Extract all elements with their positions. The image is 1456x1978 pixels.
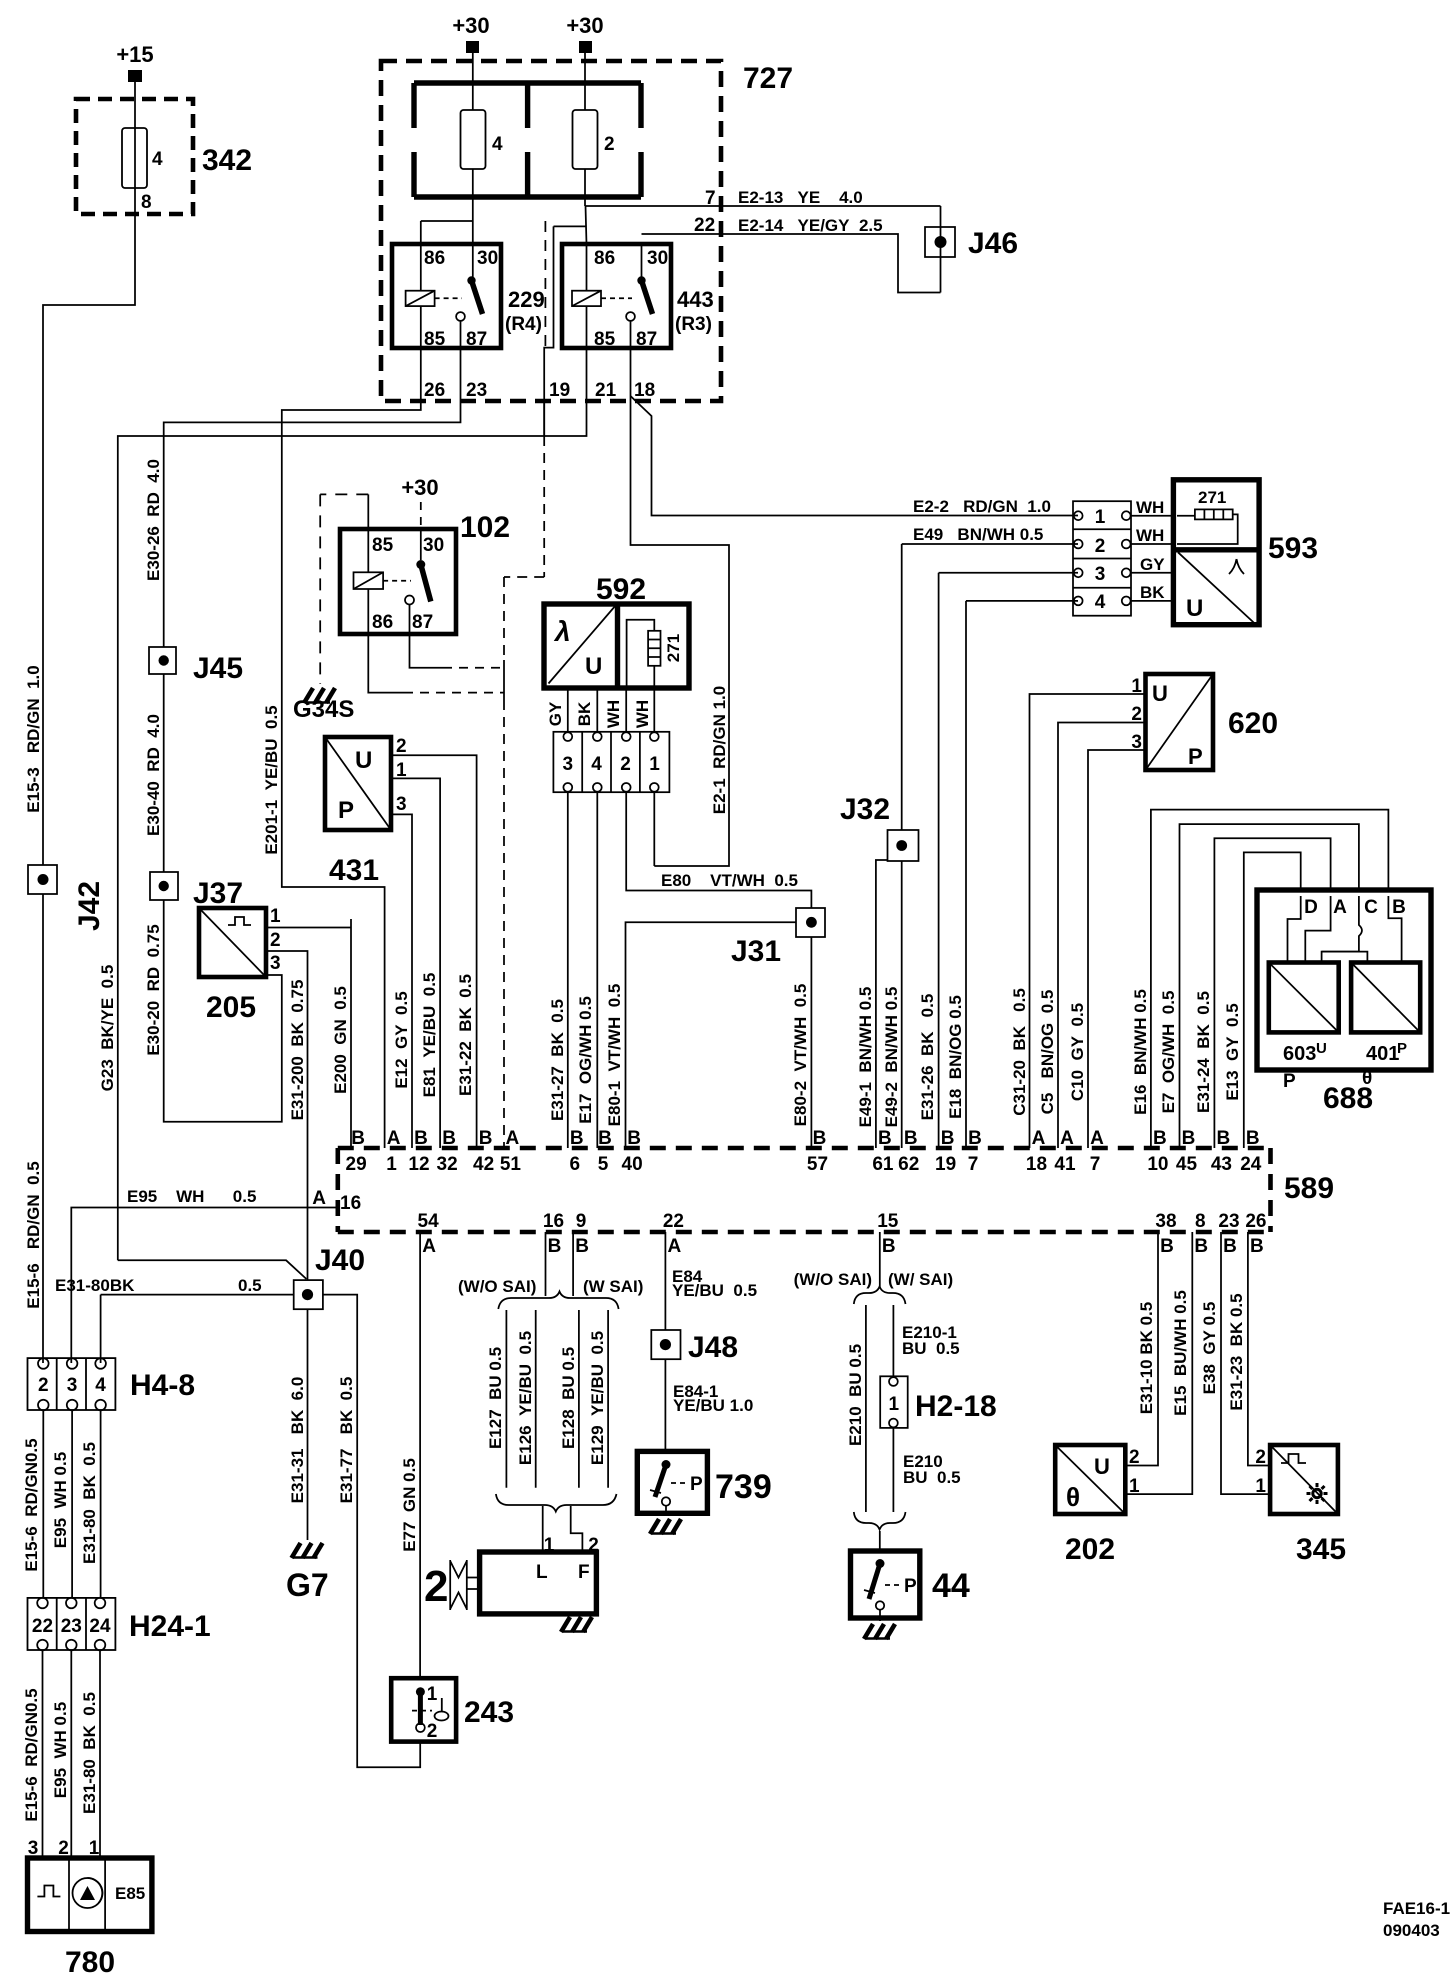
- svg-text:J40: J40: [315, 1244, 365, 1277]
- svg-text:J31: J31: [731, 935, 781, 968]
- svg-text:E30-40 RD 4.0: E30-40 RD 4.0: [144, 714, 163, 836]
- svg-text:P: P: [338, 797, 354, 824]
- svg-text:E31-80 BK 0.5: E31-80 BK 0.5: [80, 1442, 99, 1564]
- svg-text:7: 7: [1090, 1154, 1101, 1175]
- svg-text:E128 BU 0.5: E128 BU 0.5: [559, 1347, 578, 1449]
- svg-text:B: B: [813, 1128, 827, 1149]
- svg-text:E201-1 YE/BU 0.5: E201-1 YE/BU 0.5: [262, 705, 281, 854]
- svg-text:43: 43: [1211, 1154, 1232, 1175]
- svg-text:E49 BN/WH 0.5: E49 BN/WH 0.5: [913, 525, 1043, 544]
- svg-text:1: 1: [649, 754, 660, 775]
- svg-text:32: 32: [437, 1154, 458, 1175]
- svg-text:BU 0.5: BU 0.5: [903, 1468, 961, 1487]
- svg-text:8: 8: [141, 192, 152, 213]
- svg-text:589: 589: [1284, 1172, 1334, 1205]
- svg-text:B: B: [1250, 1236, 1264, 1257]
- svg-text:3: 3: [270, 953, 281, 974]
- svg-text:6: 6: [570, 1154, 581, 1175]
- svg-text:U: U: [1186, 595, 1203, 622]
- svg-text:E49-1 BN/WH 0.5: E49-1 BN/WH 0.5: [856, 987, 875, 1128]
- svg-text:(W/O SAI): (W/O SAI): [458, 1277, 536, 1296]
- svg-text:16: 16: [340, 1193, 361, 1214]
- svg-text:727: 727: [743, 62, 793, 95]
- svg-text:10: 10: [1147, 1154, 1168, 1175]
- svg-text:2: 2: [620, 754, 631, 775]
- svg-text:B: B: [351, 1128, 365, 1149]
- svg-text:44: 44: [932, 1567, 970, 1605]
- svg-text:86: 86: [424, 248, 445, 269]
- svg-text:B: B: [1160, 1236, 1174, 1257]
- svg-text:E31-80BK: E31-80BK: [55, 1276, 135, 1295]
- svg-text:85: 85: [372, 535, 394, 556]
- svg-text:J42: J42: [73, 881, 106, 931]
- svg-text:J48: J48: [688, 1331, 738, 1364]
- svg-text:342: 342: [202, 144, 252, 177]
- svg-text:WH: WH: [633, 700, 652, 728]
- svg-text:E95 WH 0.5: E95 WH 0.5: [51, 1702, 70, 1798]
- svg-text:2: 2: [424, 1562, 448, 1611]
- svg-text:B: B: [904, 1128, 918, 1149]
- svg-text:E31-26 BK 0.5: E31-26 BK 0.5: [918, 994, 937, 1121]
- svg-text:A: A: [312, 1188, 326, 1209]
- svg-text:E31-80 BK 0.5: E31-80 BK 0.5: [80, 1692, 99, 1814]
- svg-text:592: 592: [596, 573, 646, 606]
- svg-text:E2-1 RD/GN 1.0: E2-1 RD/GN 1.0: [710, 686, 729, 815]
- svg-text:4: 4: [591, 754, 602, 775]
- svg-text:4: 4: [152, 149, 163, 170]
- svg-text:WH: WH: [1136, 526, 1164, 545]
- svg-text:E95 WH 0.5: E95 WH 0.5: [127, 1187, 256, 1206]
- svg-text:P: P: [690, 1474, 703, 1495]
- svg-text:E85: E85: [115, 1884, 145, 1903]
- svg-text:16: 16: [543, 1211, 564, 1232]
- svg-text:3: 3: [396, 794, 407, 815]
- svg-text:780: 780: [65, 1946, 115, 1978]
- svg-text:0.5: 0.5: [238, 1276, 262, 1295]
- svg-text:4: 4: [492, 134, 503, 155]
- svg-text:E15 BU/WH 0.5: E15 BU/WH 0.5: [1171, 1290, 1190, 1416]
- svg-text:P: P: [1283, 1071, 1296, 1092]
- svg-text:E31-23 BK 0.5: E31-23 BK 0.5: [1227, 1293, 1246, 1410]
- svg-text:2: 2: [1129, 1447, 1140, 1468]
- svg-text:+30: +30: [452, 13, 489, 38]
- svg-text:431: 431: [329, 854, 379, 887]
- svg-text:U: U: [355, 747, 372, 774]
- svg-text:U: U: [1316, 1040, 1327, 1057]
- svg-text:24: 24: [89, 1616, 111, 1637]
- svg-text:B: B: [1223, 1236, 1237, 1257]
- svg-text:603: 603: [1283, 1043, 1316, 1065]
- svg-text:45: 45: [1176, 1154, 1198, 1175]
- svg-text:18: 18: [634, 380, 655, 401]
- svg-text:(W SAI): (W SAI): [583, 1277, 643, 1296]
- svg-text:1: 1: [270, 906, 281, 927]
- svg-text:G7: G7: [286, 1567, 329, 1603]
- svg-text:BK: BK: [575, 701, 594, 726]
- svg-text:1: 1: [1255, 1476, 1266, 1497]
- svg-text:19: 19: [549, 380, 570, 401]
- svg-text:E2-13 YE 4.0: E2-13 YE 4.0: [738, 188, 863, 207]
- svg-text:B: B: [627, 1128, 641, 1149]
- svg-text:(W/ SAI): (W/ SAI): [888, 1270, 953, 1289]
- svg-text:H4-8: H4-8: [130, 1369, 195, 1402]
- svg-text:B: B: [882, 1236, 896, 1257]
- svg-text:229: 229: [508, 287, 545, 312]
- svg-text:A: A: [422, 1236, 436, 1257]
- svg-text:40: 40: [622, 1154, 643, 1175]
- svg-text:E15-6 RD/GN0.5: E15-6 RD/GN0.5: [22, 1688, 41, 1821]
- svg-text:B: B: [1182, 1128, 1196, 1149]
- svg-text:243: 243: [464, 1696, 514, 1729]
- svg-text:202: 202: [1065, 1533, 1115, 1566]
- svg-text:(R3): (R3): [675, 314, 712, 335]
- svg-text:7: 7: [968, 1154, 979, 1175]
- svg-text:24: 24: [1240, 1154, 1262, 1175]
- svg-text:E200 GN 0.5: E200 GN 0.5: [331, 986, 350, 1094]
- svg-text:1: 1: [427, 1684, 438, 1705]
- svg-text:B: B: [1246, 1128, 1260, 1149]
- svg-text:E80-2 VT/WH 0.5: E80-2 VT/WH 0.5: [791, 984, 810, 1127]
- svg-text:A: A: [1333, 897, 1347, 918]
- svg-text:A: A: [1060, 1128, 1074, 1149]
- svg-text:620: 620: [1228, 707, 1278, 740]
- svg-text:86: 86: [372, 612, 393, 633]
- svg-text:30: 30: [647, 248, 668, 269]
- svg-text:61: 61: [872, 1154, 894, 1175]
- svg-text:23: 23: [1218, 1211, 1239, 1232]
- svg-text:2: 2: [38, 1375, 49, 1396]
- svg-text:22: 22: [32, 1616, 53, 1637]
- svg-text:A: A: [387, 1128, 401, 1149]
- svg-text:GY: GY: [1140, 555, 1165, 574]
- svg-text:5: 5: [598, 1154, 609, 1175]
- svg-text:YE/BU 1.0: YE/BU 1.0: [673, 1396, 753, 1415]
- svg-text:E31-200 BK 0.75: E31-200 BK 0.75: [288, 980, 307, 1121]
- svg-text:2: 2: [1095, 536, 1106, 557]
- svg-text:E77 GN 0.5: E77 GN 0.5: [400, 1458, 419, 1552]
- svg-text:F: F: [578, 1562, 590, 1583]
- svg-text:GY: GY: [546, 701, 565, 726]
- svg-text:87: 87: [636, 329, 657, 350]
- svg-text:C31-20 BK 0.5: C31-20 BK 0.5: [1010, 988, 1029, 1116]
- svg-text:U: U: [1152, 681, 1168, 706]
- svg-text:B: B: [1194, 1236, 1208, 1257]
- svg-text:B: B: [575, 1236, 589, 1257]
- svg-text:A: A: [1090, 1128, 1104, 1149]
- svg-text:E38 GY 0.5: E38 GY 0.5: [1200, 1302, 1219, 1395]
- svg-text:P: P: [1188, 744, 1203, 769]
- svg-text:A: A: [506, 1128, 520, 1149]
- svg-text:E17 OG/WH 0.5: E17 OG/WH 0.5: [576, 996, 595, 1124]
- svg-text:271: 271: [1198, 488, 1226, 507]
- svg-text:E80 VT/WH 0.5: E80 VT/WH 0.5: [661, 871, 798, 890]
- svg-text:1: 1: [386, 1154, 397, 1175]
- svg-text:E15-6 RD/GN 0.5: E15-6 RD/GN 0.5: [24, 1161, 43, 1308]
- svg-text:401: 401: [1366, 1043, 1399, 1065]
- svg-text:1: 1: [1129, 1476, 1140, 1497]
- svg-text:E129 YE/BU 0.5: E129 YE/BU 0.5: [588, 1331, 607, 1465]
- svg-text:E18 BN/OG 0.5: E18 BN/OG 0.5: [946, 995, 965, 1119]
- svg-text:B: B: [414, 1128, 428, 1149]
- svg-text:271: 271: [664, 634, 683, 662]
- svg-text:WH: WH: [604, 700, 623, 728]
- svg-text:E31-10 BK 0.5: E31-10 BK 0.5: [1137, 1302, 1156, 1414]
- svg-text:(W/O SAI): (W/O SAI): [794, 1270, 872, 1289]
- svg-text:54: 54: [418, 1211, 440, 1232]
- svg-text:B: B: [1153, 1128, 1167, 1149]
- svg-text:E31-22 BK 0.5: E31-22 BK 0.5: [456, 974, 475, 1096]
- svg-text:443: 443: [677, 287, 714, 312]
- svg-text:E210 BU 0.5: E210 BU 0.5: [846, 1344, 865, 1446]
- svg-text:2: 2: [427, 1721, 438, 1742]
- svg-text:205: 205: [206, 991, 256, 1024]
- svg-text:E2-14 YE/GY 2.5: E2-14 YE/GY 2.5: [738, 216, 883, 235]
- svg-text:E12 GY 0.5: E12 GY 0.5: [392, 991, 411, 1088]
- svg-text:12: 12: [408, 1154, 429, 1175]
- svg-text:57: 57: [807, 1154, 828, 1175]
- svg-text:E80-1 VT/WH 0.5: E80-1 VT/WH 0.5: [605, 984, 624, 1127]
- svg-text:C: C: [1364, 897, 1378, 918]
- svg-text:090403: 090403: [1383, 1921, 1440, 1940]
- svg-text:E15-6 RD/GN0.5: E15-6 RD/GN0.5: [22, 1438, 41, 1571]
- svg-text:BU 0.5: BU 0.5: [902, 1339, 960, 1358]
- svg-text:30: 30: [477, 248, 498, 269]
- svg-text:U: U: [585, 653, 602, 680]
- svg-text:E13 GY 0.5: E13 GY 0.5: [1223, 1003, 1242, 1100]
- svg-text:3: 3: [563, 754, 574, 775]
- svg-text:θ: θ: [1066, 1482, 1080, 1512]
- svg-text:23: 23: [466, 380, 487, 401]
- svg-text:E95 WH 0.5: E95 WH 0.5: [51, 1452, 70, 1548]
- svg-text:38: 38: [1155, 1211, 1176, 1232]
- svg-text:E49-2 BN/WH 0.5: E49-2 BN/WH 0.5: [882, 987, 901, 1128]
- svg-text:2: 2: [396, 736, 407, 757]
- svg-text:2: 2: [270, 930, 281, 951]
- svg-text:B: B: [1392, 897, 1406, 918]
- svg-text:E81 YE/BU 0.5: E81 YE/BU 0.5: [420, 973, 439, 1098]
- svg-text:L: L: [536, 1562, 548, 1583]
- svg-text:41: 41: [1054, 1154, 1076, 1175]
- svg-text:E31-31 BK 6.0: E31-31 BK 6.0: [288, 1377, 307, 1504]
- svg-text:D: D: [1304, 897, 1318, 918]
- svg-text:+30: +30: [566, 13, 603, 38]
- svg-text:E31-24 BK 0.5: E31-24 BK 0.5: [1194, 991, 1213, 1113]
- svg-text:B: B: [548, 1236, 562, 1257]
- svg-text:4: 4: [1095, 592, 1106, 613]
- svg-text:A: A: [1032, 1128, 1046, 1149]
- svg-text:λ: λ: [553, 616, 571, 647]
- svg-text:8: 8: [1195, 1211, 1206, 1232]
- svg-text:30: 30: [423, 535, 444, 556]
- svg-text:22: 22: [663, 1211, 684, 1232]
- svg-text:J37: J37: [193, 877, 243, 910]
- svg-text:85: 85: [424, 329, 446, 350]
- svg-text:2: 2: [1255, 1447, 1266, 1468]
- svg-text:J45: J45: [193, 652, 243, 685]
- svg-text:P: P: [1397, 1040, 1407, 1057]
- svg-text:B: B: [598, 1128, 612, 1149]
- svg-text:E7 OG/WH 0.5: E7 OG/WH 0.5: [1159, 991, 1178, 1114]
- svg-text:9: 9: [576, 1211, 587, 1232]
- svg-text:E30-26 RD 4.0: E30-26 RD 4.0: [144, 459, 163, 581]
- svg-text:B: B: [878, 1128, 892, 1149]
- svg-text:62: 62: [898, 1154, 919, 1175]
- svg-text:3: 3: [1095, 564, 1106, 585]
- svg-text:E15-3 RD/GN 1.0: E15-3 RD/GN 1.0: [24, 665, 43, 812]
- svg-text:21: 21: [595, 380, 617, 401]
- svg-text:1: 1: [1095, 507, 1106, 528]
- svg-text:345: 345: [1296, 1533, 1346, 1566]
- svg-text:YE/BU 0.5: YE/BU 0.5: [672, 1281, 757, 1300]
- svg-text:(R4): (R4): [505, 314, 542, 335]
- svg-text:B: B: [968, 1128, 982, 1149]
- svg-text:26: 26: [1245, 1211, 1266, 1232]
- svg-text:E31-77 BK 0.5: E31-77 BK 0.5: [337, 1377, 356, 1504]
- svg-text:E31-27 BK 0.5: E31-27 BK 0.5: [548, 999, 567, 1121]
- svg-text:B: B: [479, 1128, 493, 1149]
- svg-text:29: 29: [346, 1154, 367, 1175]
- svg-text:87: 87: [412, 612, 433, 633]
- svg-text:4: 4: [95, 1375, 106, 1396]
- svg-text:2: 2: [604, 134, 615, 155]
- svg-text:G23 BK/YE 0.5: G23 BK/YE 0.5: [98, 965, 117, 1092]
- svg-text:C5 BN/OG 0.5: C5 BN/OG 0.5: [1038, 990, 1057, 1115]
- svg-text:7: 7: [705, 188, 716, 209]
- svg-text:51: 51: [500, 1154, 522, 1175]
- svg-text:G34S: G34S: [293, 696, 354, 723]
- svg-text:E127 BU 0.5: E127 BU 0.5: [486, 1347, 505, 1449]
- svg-text:E126 YE/BU 0.5: E126 YE/BU 0.5: [516, 1331, 535, 1465]
- svg-text:593: 593: [1268, 532, 1318, 565]
- svg-text:15: 15: [877, 1211, 899, 1232]
- svg-text:P: P: [904, 1576, 917, 1597]
- svg-text:E16 BN/WH 0.5: E16 BN/WH 0.5: [1131, 989, 1150, 1115]
- svg-text:B: B: [570, 1128, 584, 1149]
- svg-text:U: U: [1094, 1454, 1110, 1479]
- svg-text:H2-18: H2-18: [915, 1390, 997, 1423]
- svg-text:H24-1: H24-1: [129, 1610, 211, 1643]
- svg-text:+30: +30: [401, 475, 438, 500]
- svg-text:688: 688: [1323, 1082, 1373, 1115]
- svg-text:3: 3: [67, 1375, 78, 1396]
- svg-text:B: B: [442, 1128, 456, 1149]
- svg-text:19: 19: [935, 1154, 956, 1175]
- svg-text:86: 86: [594, 248, 615, 269]
- svg-text:102: 102: [460, 511, 510, 544]
- svg-text:85: 85: [594, 329, 616, 350]
- svg-text:FAE16-1: FAE16-1: [1383, 1899, 1450, 1918]
- svg-text:C10 GY 0.5: C10 GY 0.5: [1068, 1003, 1087, 1101]
- svg-text:E2-2 RD/GN 1.0: E2-2 RD/GN 1.0: [913, 497, 1051, 516]
- svg-text:42: 42: [473, 1154, 494, 1175]
- svg-text:26: 26: [424, 380, 445, 401]
- svg-text:J32: J32: [840, 793, 890, 826]
- svg-text:BK: BK: [1140, 583, 1165, 602]
- svg-text:87: 87: [466, 329, 487, 350]
- svg-text:1: 1: [889, 1394, 900, 1415]
- svg-text:A: A: [668, 1236, 682, 1257]
- svg-text:B: B: [1217, 1128, 1231, 1149]
- svg-text:+15: +15: [116, 42, 153, 67]
- svg-text:739: 739: [715, 1468, 772, 1506]
- svg-text:B: B: [941, 1128, 955, 1149]
- svg-text:E30-20 RD 0.75: E30-20 RD 0.75: [144, 924, 163, 1055]
- svg-text:J46: J46: [968, 227, 1018, 260]
- svg-text:22: 22: [694, 215, 715, 236]
- svg-text:23: 23: [61, 1616, 82, 1637]
- svg-text:18: 18: [1026, 1154, 1047, 1175]
- svg-text:WH: WH: [1136, 498, 1164, 517]
